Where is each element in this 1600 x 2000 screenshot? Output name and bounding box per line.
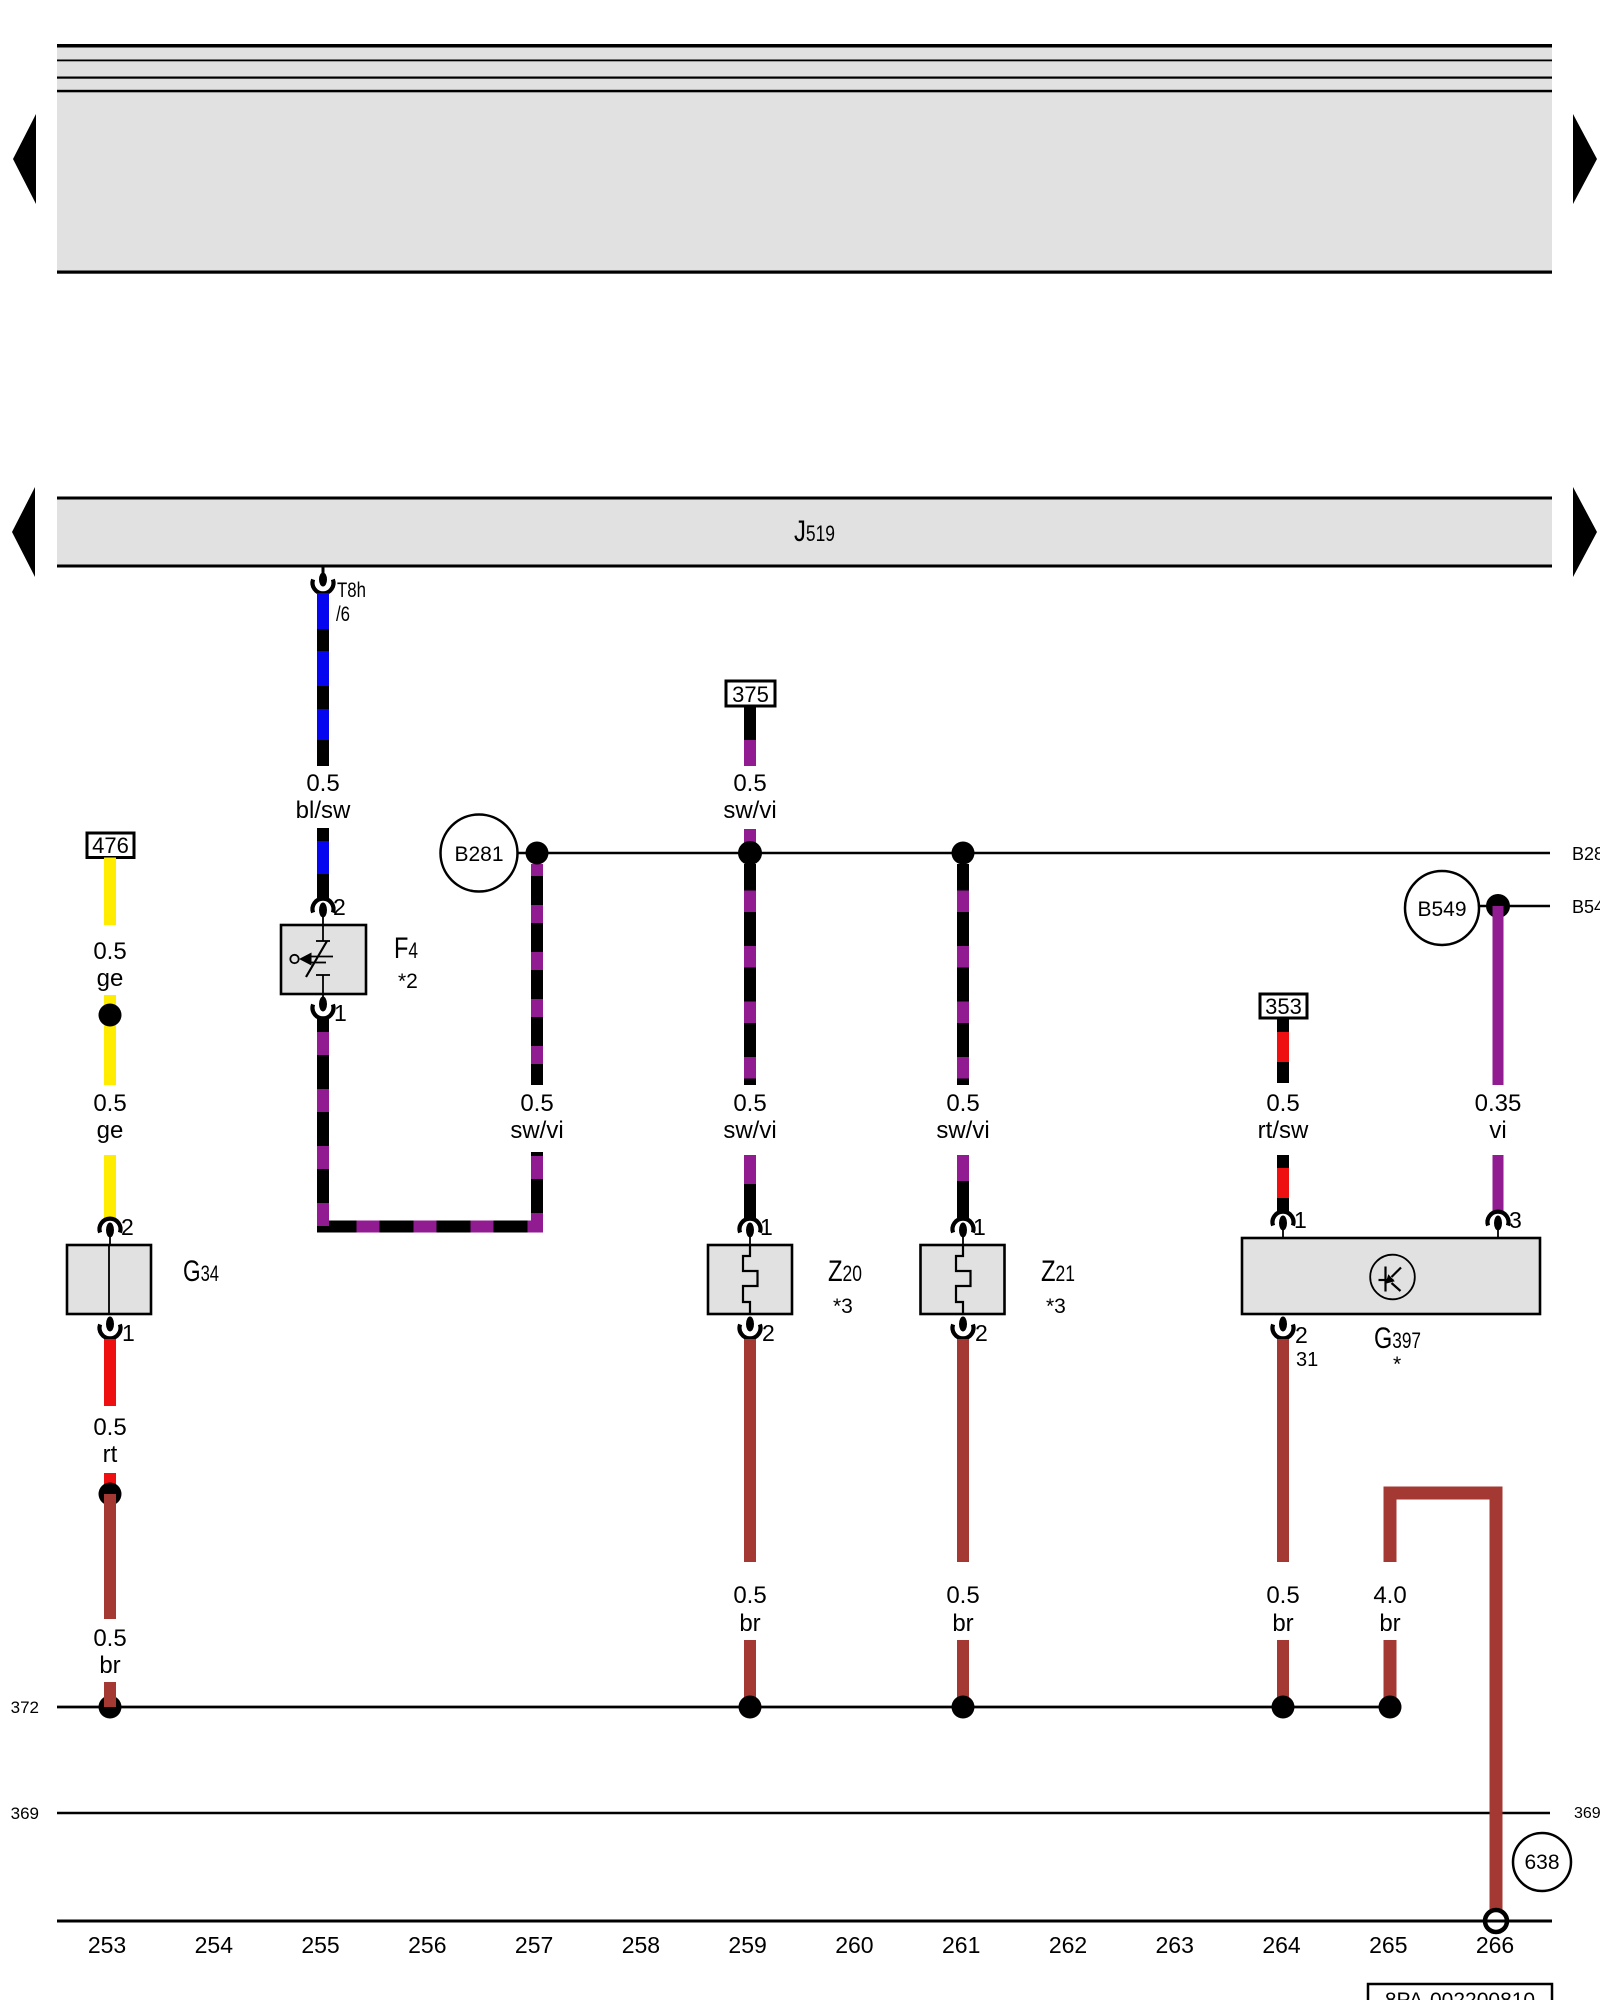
svg-text:T8h: T8h (337, 579, 366, 602)
node circle B549 (1405, 871, 1479, 945)
wire 0.5 br from Z21 (957, 1339, 969, 1562)
svg-text:0.5: 0.5 (93, 1090, 126, 1117)
Z21 pin 1 (953, 1219, 974, 1246)
wire 0.5 br from Z20 (744, 1339, 756, 1562)
wire 0.5 sw/vi upper segment to node B281 (531, 864, 543, 1085)
heater element Z20 (708, 1245, 792, 1314)
svg-text:0.5: 0.5 (1266, 1090, 1299, 1117)
svg-text:0.5: 0.5 (946, 1582, 979, 1609)
svg-text:262: 262 (1049, 1932, 1087, 1958)
svg-text:2: 2 (1295, 1322, 1308, 1348)
wire 0.5 br upper (track 253) (104, 1494, 116, 1619)
svg-text:*2: *2 (398, 970, 418, 993)
svg-text:B549: B549 (1417, 898, 1466, 921)
svg-text:*3: *3 (1046, 1295, 1066, 1318)
junction dot 257 (526, 842, 549, 865)
net line B549 (1479, 905, 1550, 908)
svg-text:372: 372 (11, 1698, 39, 1717)
svg-text:263: 263 (1156, 1932, 1194, 1958)
junction dot 372/253 (99, 1696, 122, 1719)
svg-text:B549: B549 (1572, 897, 1600, 917)
svg-text:F4: F4 (394, 932, 418, 965)
svg-text:1: 1 (760, 1214, 773, 1240)
svg-text:/6: /6 (336, 603, 350, 626)
thermal switch F4 (281, 925, 366, 994)
junction dot 372/261 (952, 1696, 975, 1719)
Z21 pin 2 (953, 1317, 974, 1339)
svg-text:1: 1 (1294, 1207, 1307, 1233)
svg-text:369: 369 (1574, 1805, 1600, 1822)
J519 arrow right (1573, 487, 1597, 577)
wire 0.5 ge to G34 pin2 (104, 1155, 116, 1219)
svg-text:sw/vi: sw/vi (723, 1117, 776, 1144)
svg-text:sw/vi: sw/vi (936, 1117, 989, 1144)
junction dot B549 (1486, 894, 1510, 918)
wire rt/sw to G397 pin1 (1277, 1155, 1289, 1212)
net line 369 (57, 1812, 1550, 1815)
svg-text:2: 2 (333, 894, 346, 920)
svg-text:0.5: 0.5 (733, 1582, 766, 1609)
svg-text:31: 31 (1296, 1349, 1318, 1371)
svg-text:vi: vi (1489, 1117, 1506, 1144)
F4 pin 2 (313, 899, 334, 926)
bus bar top (57, 44, 1552, 274)
svg-text:2: 2 (975, 1320, 988, 1346)
svg-text:258: 258 (622, 1932, 660, 1958)
svg-text:476: 476 (92, 833, 129, 858)
wire 0.5 bl/sw upper (317, 593, 329, 766)
svg-text:bl/sw: bl/sw (296, 797, 351, 824)
svg-text:1: 1 (973, 1214, 986, 1240)
diagram code box 8PA-002200810 (1368, 1984, 1552, 2000)
svg-text:261: 261 (942, 1932, 980, 1958)
control unit J519 bar (57, 497, 1552, 567)
svg-text:sw/vi: sw/vi (510, 1117, 563, 1144)
svg-text:sw/vi: sw/vi (723, 797, 776, 824)
junction dot rt/br (99, 1483, 122, 1506)
wire 0.5 br to net 372 (957, 1640, 969, 1707)
svg-text:*: * (1393, 1353, 1401, 1376)
svg-text:br: br (1379, 1610, 1400, 1637)
wire 0.5 sw/vi below 375 (744, 706, 756, 766)
junction dot 259 (738, 841, 762, 865)
svg-text:0.5: 0.5 (1266, 1582, 1299, 1609)
svg-text:8PA-002200810: 8PA-002200810 (1385, 1989, 1535, 2000)
junction dot ge (99, 1004, 122, 1027)
wire 0.5 sw/vi from F4-1 (L shape) (323, 1019, 537, 1227)
svg-text:260: 260 (835, 1932, 873, 1958)
svg-text:1: 1 (334, 1000, 347, 1026)
junction dot 261 (952, 842, 975, 865)
svg-text:ge: ge (97, 965, 124, 992)
connection box 353 (1260, 994, 1307, 1018)
wire sw/vi node to Z20 upper (744, 864, 756, 1085)
svg-text:0.5: 0.5 (306, 770, 339, 797)
svg-text:0.5: 0.5 (93, 938, 126, 965)
ground terminal open circle (1485, 1910, 1507, 1932)
svg-text:257: 257 (515, 1932, 553, 1958)
G397 pin 1 (1273, 1212, 1294, 1239)
svg-text:*3: *3 (833, 1295, 853, 1318)
wire sw/vi to Z20 pin1 (744, 1155, 756, 1219)
svg-text:0.5: 0.5 (733, 770, 766, 797)
svg-text:0.5: 0.5 (93, 1625, 126, 1652)
svg-text:Z21: Z21 (1041, 1255, 1075, 1288)
svg-text:353: 353 (1265, 994, 1302, 1019)
connection box 375 (726, 681, 775, 706)
sensor G397 (1242, 1238, 1540, 1314)
wire 4.0 br to net 372 (1384, 1640, 1397, 1707)
svg-text:254: 254 (195, 1932, 234, 1958)
top band arrow right (1573, 114, 1597, 204)
junction dot 372/265 (1379, 1696, 1402, 1719)
wire 0.5 rt stub (104, 1473, 116, 1485)
net line 372 (57, 1706, 1390, 1709)
G34 pin 2 (100, 1219, 121, 1246)
svg-text:2: 2 (121, 1214, 134, 1240)
ground label circle 638 (1513, 1833, 1571, 1891)
svg-text:264: 264 (1262, 1932, 1301, 1958)
svg-text:259: 259 (728, 1932, 766, 1958)
svg-text:265: 265 (1369, 1932, 1407, 1958)
junction dot 372/264 (1272, 1696, 1295, 1719)
svg-text:rt/sw: rt/sw (1258, 1117, 1309, 1144)
net line B281 (517, 852, 1550, 855)
heater element Z21 (921, 1245, 1005, 1314)
svg-text:0.5: 0.5 (733, 1090, 766, 1117)
svg-text:Z20: Z20 (828, 1255, 862, 1288)
svg-text:G397: G397 (1374, 1322, 1421, 1355)
svg-text:1: 1 (122, 1320, 135, 1346)
node circle B281 (441, 815, 518, 892)
svg-text:4.0: 4.0 (1373, 1582, 1406, 1609)
svg-text:375: 375 (732, 682, 769, 707)
wire 0.5 bl/sw lower (317, 828, 329, 899)
bottom rail (57, 1920, 1552, 1923)
svg-text:br: br (952, 1610, 973, 1637)
pin T8h/6 on J519 (313, 567, 334, 593)
connection box 476 (87, 833, 134, 858)
wire 0.35 vi to G397 pin3 (1493, 1155, 1504, 1212)
svg-text:B281: B281 (454, 843, 503, 866)
svg-text:ge: ge (97, 1117, 124, 1144)
G397 pin 2 (1273, 1317, 1294, 1339)
svg-text:3: 3 (1509, 1207, 1522, 1233)
J519 arrow left (12, 487, 35, 577)
wire 0.35 vi upper (1493, 906, 1504, 1085)
wire 0.5 ge middle (104, 995, 116, 1085)
svg-text:256: 256 (408, 1932, 446, 1958)
svg-text:369: 369 (11, 1804, 39, 1823)
Z20 pin 2 (740, 1317, 761, 1339)
wire 0.5 br to net 372 (744, 1640, 756, 1707)
F4 pin 1 (313, 994, 334, 1018)
svg-text:0.5: 0.5 (93, 1414, 126, 1441)
G34 pin 1 (100, 1317, 121, 1339)
svg-text:G34: G34 (183, 1255, 219, 1288)
svg-text:rt: rt (103, 1441, 118, 1468)
svg-text:B281: B281 (1572, 844, 1600, 864)
wire 0.5 br to net 372 (104, 1682, 116, 1707)
svg-text:266: 266 (1476, 1932, 1514, 1958)
wire sw/vi node to Z21 upper (957, 864, 969, 1085)
wire 0.5 rt (104, 1339, 116, 1406)
junction dot 372/259 (739, 1696, 762, 1719)
track numbers (88, 1932, 1514, 1958)
svg-text:0.35: 0.35 (1475, 1090, 1522, 1117)
top band arrow left (13, 114, 36, 204)
svg-text:253: 253 (88, 1932, 126, 1958)
wire 4.0 br bridge (1390, 1493, 1496, 1910)
svg-text:638: 638 (1524, 1851, 1559, 1874)
wire 0.5 br to net 372 (1277, 1640, 1289, 1707)
G397 pin 3 (1488, 1212, 1509, 1239)
svg-text:0.5: 0.5 (946, 1090, 979, 1117)
svg-text:0.5: 0.5 (520, 1090, 553, 1117)
svg-text:br: br (739, 1610, 760, 1637)
svg-text:2: 2 (762, 1320, 775, 1346)
wire 0.5 rt/sw below 353 (1277, 1018, 1289, 1083)
wire sw/vi to Z21 pin1 (957, 1155, 969, 1219)
sender G34 (67, 1245, 151, 1314)
wire 0.5 ge upper (104, 858, 116, 926)
svg-text:br: br (99, 1652, 120, 1679)
svg-text:255: 255 (301, 1932, 339, 1958)
svg-text:br: br (1272, 1610, 1293, 1637)
wire stub above node 259 (744, 829, 756, 853)
wire 0.5 br from G397-2 (1277, 1339, 1289, 1562)
Z20 pin 1 (740, 1219, 761, 1246)
